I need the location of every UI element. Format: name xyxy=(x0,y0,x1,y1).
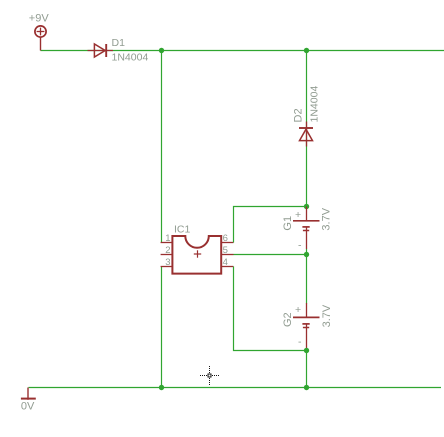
wire right branch from top rail down to node A xyxy=(306,51,308,207)
IC1 pin 2 xyxy=(161,245,173,256)
wire IC1 pin 6 up and right to node A xyxy=(234,207,307,243)
junction 0V rail / right branch xyxy=(304,385,309,390)
svg-text:3.7V: 3.7V xyxy=(321,207,333,230)
svg-text:3: 3 xyxy=(165,257,170,268)
battery G1 3.7V xyxy=(282,207,333,255)
wire IC1 pin 5 right to node B xyxy=(234,254,307,256)
svg-text:D1: D1 xyxy=(112,37,126,49)
svg-text:-: - xyxy=(298,336,302,348)
diode D1 1N4004 xyxy=(88,37,149,64)
wire bottom 0V rail xyxy=(29,387,442,389)
svg-text:5: 5 xyxy=(223,245,228,256)
IC1 pin 1 xyxy=(161,233,173,244)
junction node A xyxy=(304,204,309,209)
wire left branch down to IC1 pin 1 xyxy=(161,50,163,243)
wire IC1 pin 3 down to 0V rail xyxy=(161,267,163,389)
svg-text:+9V: +9V xyxy=(29,13,50,25)
svg-text:IC1: IC1 xyxy=(174,224,191,236)
svg-text:3.7V: 3.7V xyxy=(321,304,333,327)
junction top rail / right branch xyxy=(304,48,309,53)
wire node B down to G2 xyxy=(306,255,308,304)
supply +9V xyxy=(29,13,50,51)
svg-text:+: + xyxy=(295,304,301,316)
IC1 pin 4 xyxy=(221,257,233,268)
IC IC1 body xyxy=(172,224,221,274)
svg-text:1: 1 xyxy=(165,233,170,244)
wire top +9V rail xyxy=(41,50,444,52)
wire node C down to 0V rail xyxy=(306,351,308,389)
cursor crosshair xyxy=(200,366,219,385)
svg-text:6: 6 xyxy=(223,233,228,244)
IC1 pin 5 xyxy=(221,245,233,256)
supply 0V xyxy=(21,388,36,413)
svg-text:4: 4 xyxy=(223,257,228,268)
svg-text:G2: G2 xyxy=(282,312,294,327)
battery G2 3.7V xyxy=(282,303,333,351)
junction 0V rail / left branch xyxy=(159,385,164,390)
svg-text:D2: D2 xyxy=(293,108,305,122)
svg-text:2: 2 xyxy=(165,245,170,256)
IC1 pin 6 xyxy=(221,233,233,244)
junction node C xyxy=(304,348,309,353)
svg-text:+: + xyxy=(295,209,301,221)
IC1 pin 3 xyxy=(161,257,173,268)
svg-text:1N4004: 1N4004 xyxy=(309,86,321,123)
svg-text:0V: 0V xyxy=(21,401,35,413)
wire IC1 pin 4 down and right to node C xyxy=(234,267,307,351)
junction top rail / left branch xyxy=(159,48,164,53)
svg-text:G1: G1 xyxy=(282,216,294,231)
diode D2 1N4004 xyxy=(293,86,321,147)
svg-text:1N4004: 1N4004 xyxy=(112,52,149,64)
junction node B xyxy=(304,252,309,257)
svg-text:-: - xyxy=(298,240,302,252)
